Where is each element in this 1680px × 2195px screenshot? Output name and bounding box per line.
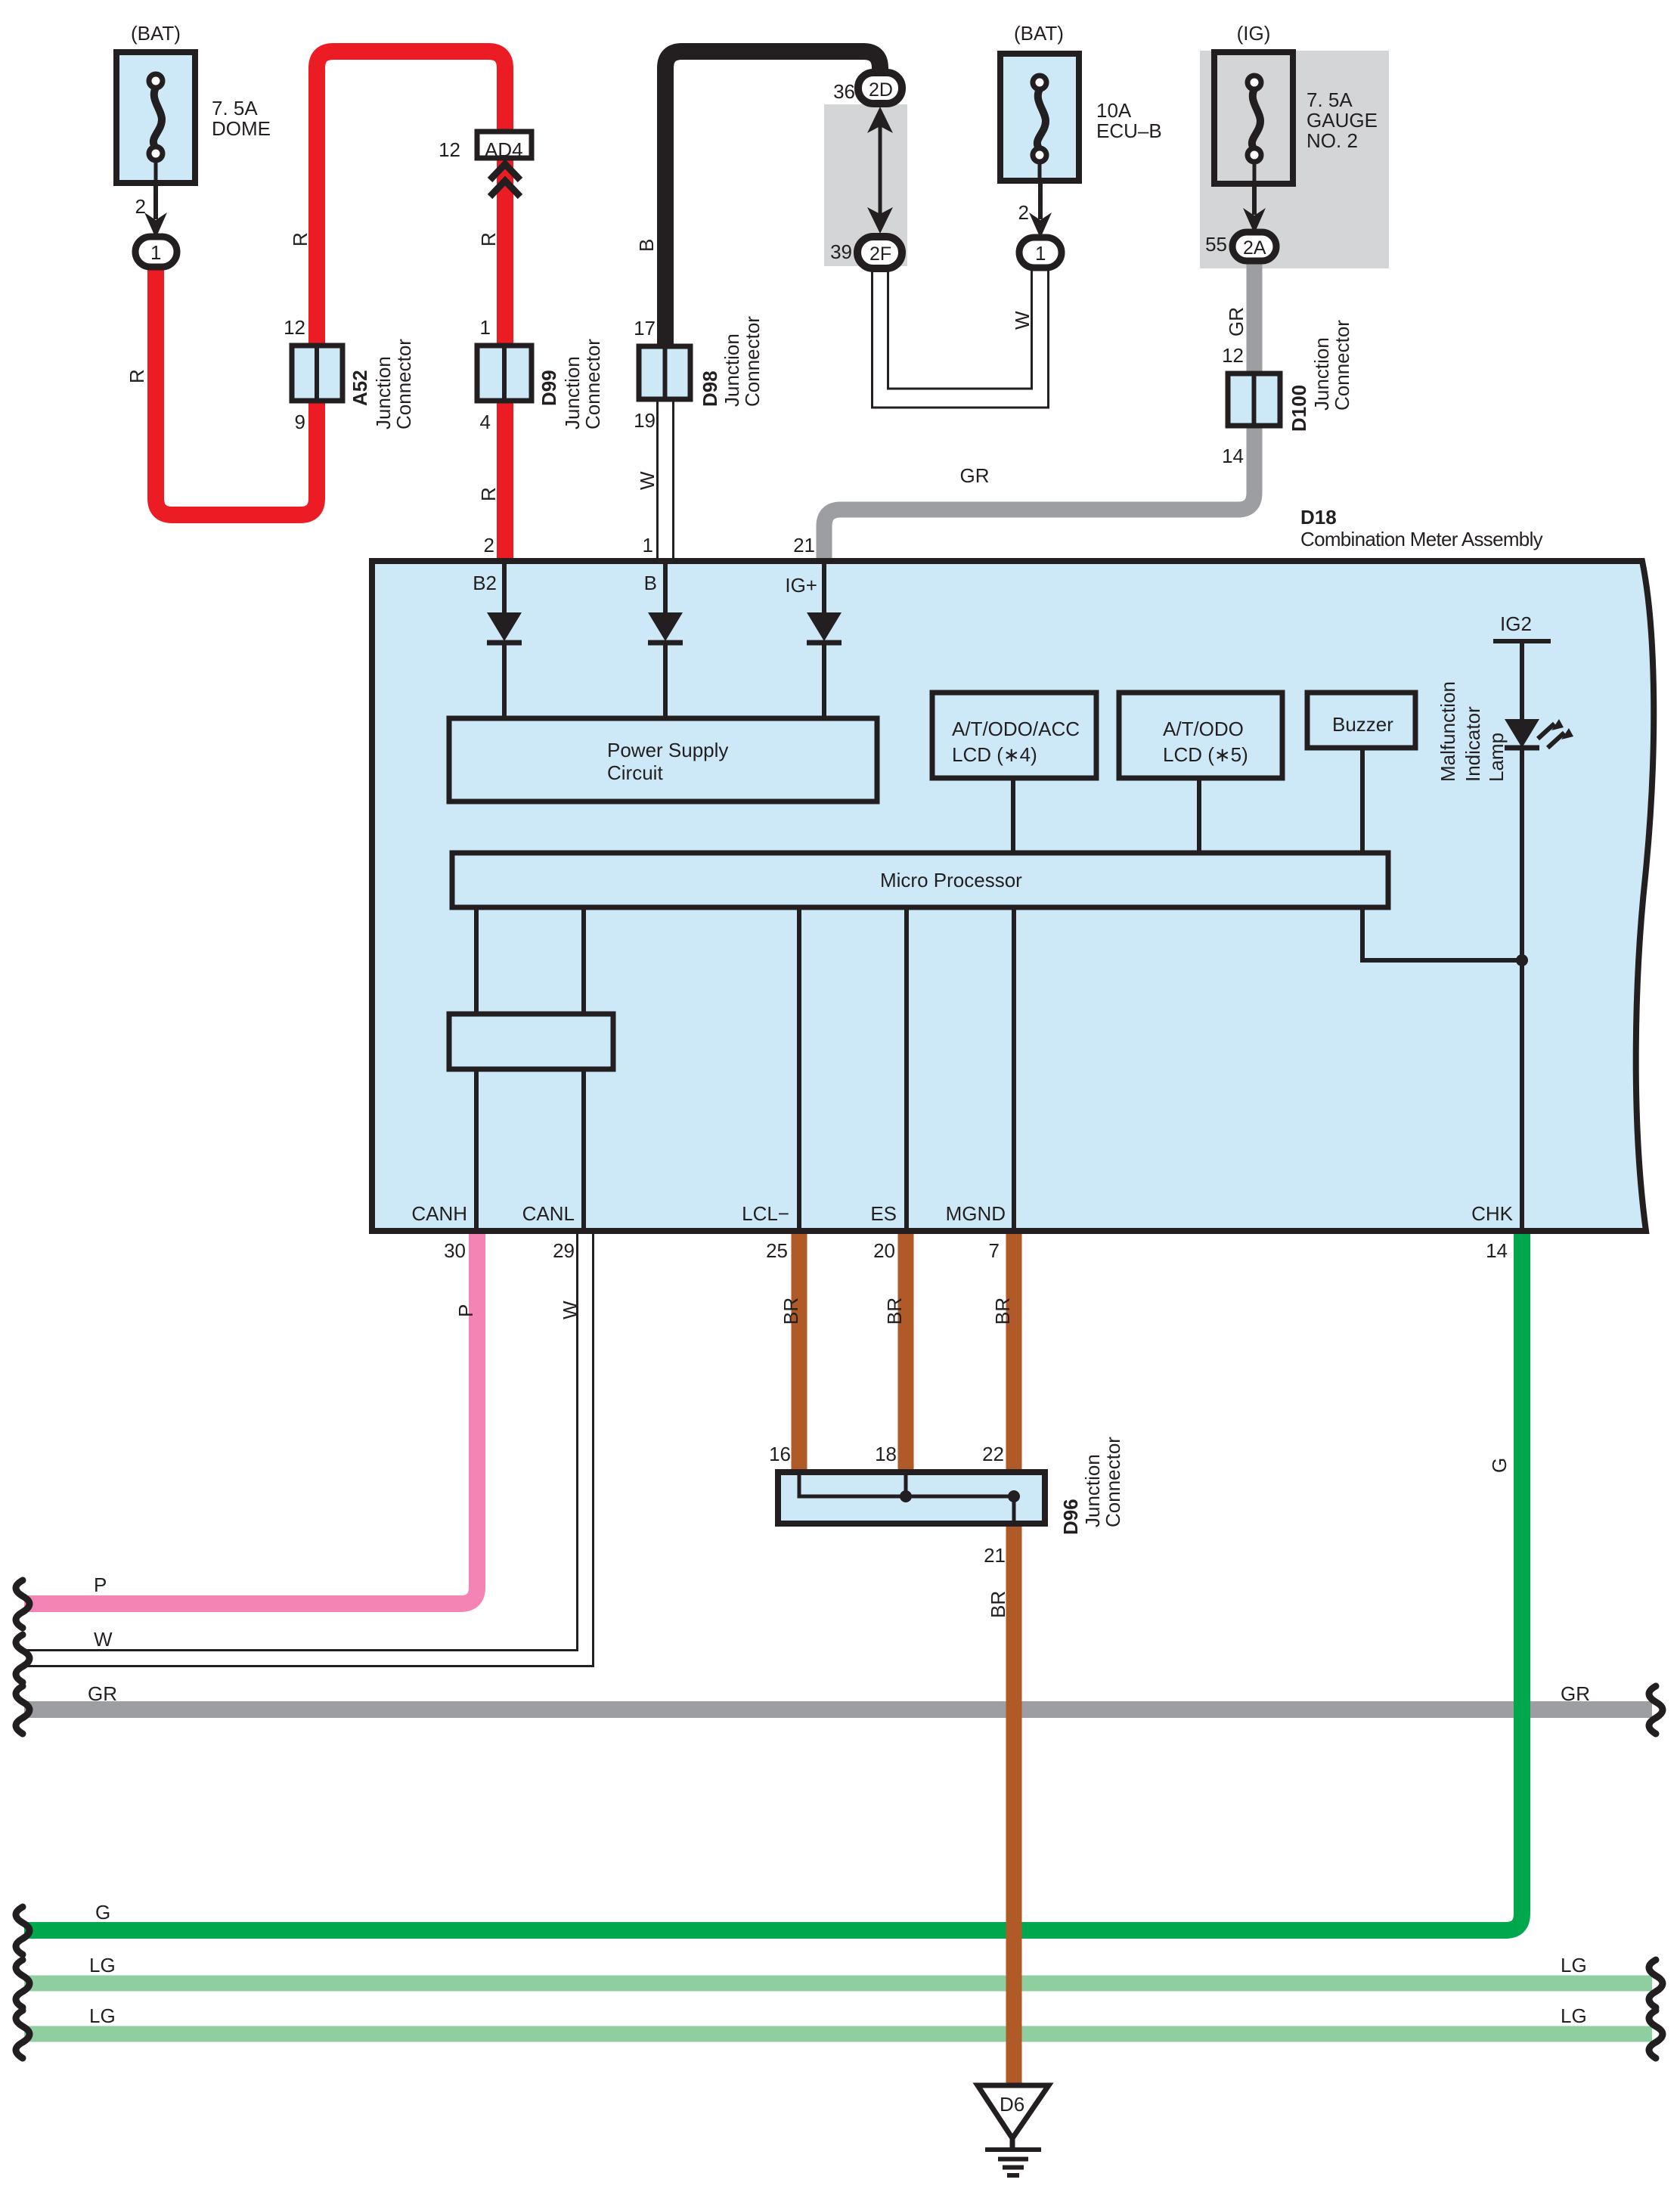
svg-text:GR: GR — [1225, 307, 1248, 336]
svg-text:39: 39 — [830, 240, 852, 263]
svg-text:2: 2 — [484, 534, 494, 557]
svg-text:IG+: IG+ — [785, 574, 817, 597]
label LG2 left — [89, 2004, 116, 2027]
svg-text:B: B — [644, 572, 657, 594]
svg-text:A/T/ODO/ACC: A/T/ODO/ACC — [952, 718, 1080, 740]
fuse 7.5A GAUGE NO.2 — [1214, 52, 1293, 187]
label R left — [126, 369, 148, 383]
connector AD4 — [477, 132, 532, 161]
svg-text:21: 21 — [793, 534, 815, 557]
wire BR (MGND pin 7 to D96 pin 22) — [1006, 1234, 1022, 1472]
label D100 junction connector — [1288, 320, 1353, 432]
svg-text:2: 2 — [1018, 201, 1029, 224]
svg-text:W: W — [1011, 311, 1034, 330]
wire BR (LCL- pin 25 to D96 pin 16) — [792, 1234, 807, 1472]
node junction dot on CHK line — [1516, 954, 1528, 966]
svg-text:D100: D100 — [1288, 385, 1310, 432]
label R at A52 — [289, 232, 312, 246]
label GR trunk left — [88, 1682, 117, 1705]
svg-text:2F: 2F — [869, 243, 891, 265]
label W wire bottom — [559, 1301, 581, 1319]
svg-text:Junction: Junction — [561, 356, 584, 429]
svg-text:LG: LG — [1561, 1954, 1587, 1976]
junction connector D99 — [477, 346, 532, 401]
diode at B2 — [487, 561, 522, 718]
break symbol P left — [16, 1580, 29, 1628]
pins D98 — [634, 317, 656, 432]
junction connector D100 — [1228, 374, 1280, 426]
label A52 junction connector — [349, 339, 415, 429]
label (BAT) ECU-B — [1014, 22, 1064, 45]
wire BR (ES pin 20 to D96 pin 18) — [898, 1234, 914, 1472]
svg-text:2: 2 — [135, 195, 146, 218]
label W trunk — [94, 1628, 113, 1651]
fuse 10A ECU-B — [1000, 54, 1079, 184]
wire arrow link 2D to 2F — [867, 107, 893, 234]
label G trunk — [95, 1901, 110, 1924]
svg-text:19: 19 — [634, 409, 656, 432]
svg-text:W: W — [559, 1301, 581, 1319]
label malfunction indicator lamp — [1437, 681, 1508, 782]
svg-text:16: 16 — [769, 1443, 791, 1465]
svg-text:30: 30 — [444, 1239, 466, 1262]
wire MP to CHK node — [1362, 907, 1522, 960]
diode at B — [648, 561, 683, 718]
svg-text:A/T/ODO: A/T/ODO — [1163, 718, 1244, 740]
ground D6 — [978, 2085, 1049, 2175]
svg-text:Junction: Junction — [721, 333, 743, 407]
svg-text:B2: B2 — [473, 572, 497, 594]
svg-text:36: 36 — [833, 80, 855, 103]
label LG1 right — [1561, 1954, 1587, 1976]
svg-text:14: 14 — [1486, 1239, 1508, 1262]
svg-text:CANH: CANH — [411, 1202, 467, 1225]
svg-text:D18: D18 — [1300, 506, 1337, 529]
svg-text:22: 22 — [982, 1443, 1004, 1465]
svg-text:MGND: MGND — [946, 1202, 1006, 1225]
svg-text:Micro Processor: Micro Processor — [880, 869, 1022, 891]
svg-text:CANL: CANL — [522, 1202, 575, 1225]
svg-text:LG: LG — [89, 1954, 116, 1976]
svg-text:LG: LG — [1561, 2004, 1587, 2027]
svg-text:12: 12 — [439, 138, 460, 161]
label BR MGND — [991, 1297, 1014, 1325]
label W below D98 — [636, 471, 659, 490]
pin 55 2A — [1205, 233, 1227, 256]
svg-text:P: P — [94, 1573, 107, 1596]
wire W outline (D98 pin 19 to meter B) — [658, 401, 674, 560]
label D99 junction connector — [538, 339, 604, 429]
label BR below D96 — [987, 1591, 1009, 1618]
svg-text:BR: BR — [991, 1297, 1014, 1325]
svg-text:Junction: Junction — [1310, 337, 1333, 411]
svg-text:GR: GR — [1561, 1682, 1590, 1705]
power supply circuit box — [449, 718, 877, 801]
gray system box 2D/2F — [824, 104, 907, 266]
svg-text:21: 21 — [984, 1544, 1006, 1567]
label B wire — [635, 239, 658, 252]
svg-text:18: 18 — [875, 1443, 897, 1465]
svg-text:7. 5A: 7. 5A — [1306, 88, 1353, 111]
label 7.5A DOME — [212, 97, 271, 140]
label BR LCL — [780, 1297, 802, 1325]
wire BR (D96 pin 21 to ground D6) — [1006, 1524, 1022, 2085]
svg-text:W: W — [636, 471, 659, 490]
LED malfunction indicator lamp — [1505, 719, 1573, 1228]
break symbol LG1 left — [16, 1960, 29, 2007]
svg-text:GR: GR — [960, 464, 990, 487]
wire LG trunk 2 — [24, 2026, 1652, 2042]
svg-text:Buzzer: Buzzer — [1332, 713, 1393, 736]
break symbol W left — [16, 1635, 29, 1682]
pin 2 DOME — [135, 195, 146, 218]
svg-text:Connector: Connector — [1331, 320, 1353, 411]
svg-text:Indicator: Indicator — [1461, 706, 1484, 782]
svg-text:7: 7 — [989, 1239, 1000, 1262]
meter top terminal names — [473, 572, 817, 597]
svg-text:55: 55 — [1205, 233, 1227, 256]
svg-text:1: 1 — [643, 534, 653, 557]
label GR trunk right — [1561, 1682, 1590, 1705]
label W at ECU loop — [1011, 311, 1034, 330]
pins A52 — [284, 316, 305, 433]
wire MGND internal — [1012, 907, 1016, 1228]
svg-text:BR: BR — [987, 1591, 1009, 1618]
svg-text:AD4: AD4 — [485, 138, 523, 161]
svg-text:(IG): (IG) — [1237, 22, 1271, 45]
svg-text:2A: 2A — [1243, 237, 1266, 259]
meter bottom terminal names — [411, 1202, 1513, 1225]
harness chevron below AD4 — [490, 164, 520, 197]
pin 39 2F — [830, 240, 852, 263]
wire R (DOME fuse to meter B2 via A52, AD4, D99) — [156, 51, 505, 558]
svg-text:Circuit: Circuit — [607, 761, 663, 784]
wire GR (2A via D100 to meter IG+) — [824, 260, 1254, 558]
wire W outline U-shape (2F to ECU-B pin 1) — [873, 268, 1049, 408]
break symbol G left — [16, 1907, 29, 1955]
CAN transceiver box — [449, 907, 613, 1228]
svg-text:D99: D99 — [538, 370, 560, 406]
diode at IG+ — [807, 561, 842, 718]
IG2 supply bar — [1493, 612, 1551, 721]
connector oval 2A — [1232, 232, 1276, 261]
label D98 junction connector — [699, 316, 764, 407]
pins D100 — [1222, 344, 1244, 467]
wire thin black (DOME fuse bottom to connector 1) — [144, 186, 167, 238]
svg-text:17: 17 — [634, 317, 656, 339]
meter top pin labels — [484, 534, 815, 557]
pin 12 AD4 — [439, 138, 460, 161]
wire LCL- internal — [797, 907, 801, 1228]
svg-text:Connector: Connector — [1102, 1437, 1124, 1527]
svg-text:LG: LG — [89, 2004, 116, 2027]
svg-text:2D: 2D — [869, 79, 893, 101]
junction connector D96 — [778, 1472, 1045, 1524]
svg-text:G: G — [95, 1901, 110, 1924]
svg-text:R: R — [289, 232, 312, 246]
wire thin black (GAUGE fuse bottom to 2A) — [1243, 187, 1266, 234]
svg-text:20: 20 — [873, 1239, 895, 1262]
break symbol GR left — [16, 1686, 29, 1734]
break symbol GR right — [1649, 1686, 1663, 1734]
svg-text:Connector: Connector — [741, 316, 764, 407]
label GR rotated — [1225, 307, 1248, 336]
svg-text:B: B — [635, 239, 658, 252]
fuse 7.5A DOME — [116, 52, 195, 186]
svg-text:(BAT): (BAT) — [1014, 22, 1064, 45]
connector oval 2F — [857, 237, 902, 268]
break symbol LG1 right — [1649, 1960, 1663, 2007]
wire GR trunk — [24, 1701, 1652, 1718]
junction connector A52 — [292, 346, 343, 401]
svg-text:Junction: Junction — [372, 356, 395, 429]
A/T/ODO LCD box — [1119, 693, 1282, 853]
wire B (D98 to 2D) — [665, 51, 880, 345]
junction connector D98 — [639, 346, 690, 399]
svg-text:14: 14 — [1222, 445, 1244, 467]
svg-text:4: 4 — [480, 411, 491, 433]
svg-text:R: R — [477, 487, 500, 501]
pins D99 — [480, 316, 491, 433]
wire W outline (CANL pin 29) — [26, 1234, 594, 1666]
wire G (CHK pin 14) — [24, 1234, 1522, 1930]
svg-text:Combination Meter Assembly: Combination Meter Assembly — [1300, 528, 1543, 550]
label (IG) GAUGE — [1237, 22, 1271, 45]
wire P (CANH pin 30) — [24, 1234, 477, 1604]
svg-text:D98: D98 — [699, 370, 721, 407]
gray system box GAUGE NO.2 — [1200, 51, 1389, 268]
svg-text:DOME: DOME — [212, 117, 271, 140]
pin 2 ECU-B — [1018, 201, 1029, 224]
svg-text:R: R — [126, 369, 148, 383]
pin 36 2D — [833, 80, 855, 103]
svg-text:G: G — [1488, 1458, 1511, 1473]
svg-text:7. 5A: 7. 5A — [212, 97, 258, 119]
buzzer box — [1307, 693, 1415, 853]
label GR horizontal — [960, 464, 990, 487]
svg-text:29: 29 — [553, 1239, 575, 1262]
label 10A ECU-B — [1096, 99, 1162, 142]
break symbol LG2 left — [16, 2011, 29, 2058]
svg-text:12: 12 — [284, 316, 305, 339]
label R at D99 bottom — [477, 487, 500, 501]
label (BAT) DOME — [131, 22, 181, 45]
label R at D99 top — [477, 232, 500, 246]
label G wire — [1488, 1458, 1511, 1473]
svg-text:Connector: Connector — [581, 339, 604, 429]
combination meter assembly D18 box — [372, 561, 1654, 1231]
svg-text:Lamp: Lamp — [1485, 733, 1508, 782]
svg-text:25: 25 — [766, 1239, 788, 1262]
label 7.5A GAUGE NO.2 — [1306, 88, 1378, 152]
svg-text:(BAT): (BAT) — [131, 22, 181, 45]
svg-text:W: W — [94, 1628, 113, 1651]
svg-text:BR: BR — [780, 1297, 802, 1325]
svg-text:GR: GR — [88, 1682, 117, 1705]
svg-text:10A: 10A — [1096, 99, 1132, 122]
label LG2 right — [1561, 2004, 1587, 2027]
svg-text:12: 12 — [1222, 344, 1244, 367]
A/T/ODO/ACC LCD box — [932, 693, 1096, 853]
break symbol LG2 right — [1649, 2011, 1663, 2058]
svg-text:1: 1 — [480, 316, 491, 339]
svg-text:LCL−: LCL− — [742, 1202, 789, 1225]
connector oval 1 (ECU-B) — [1019, 237, 1062, 268]
wire LG trunk 1 — [24, 1976, 1652, 1992]
connector oval 1 (DOME) — [135, 237, 177, 267]
svg-text:9: 9 — [295, 411, 305, 433]
svg-text:IG2: IG2 — [1500, 612, 1532, 635]
svg-text:LCD (∗4): LCD (∗4) — [952, 743, 1037, 766]
label LG1 left — [89, 1954, 116, 1976]
connector oval 2D — [858, 73, 902, 104]
svg-text:ES: ES — [870, 1202, 897, 1225]
svg-text:CHK: CHK — [1471, 1202, 1514, 1225]
pins D96 — [769, 1443, 1006, 1567]
label D18 combination meter assembly — [1300, 506, 1543, 550]
wire thin black (ECU-B fuse bottom to connector 1) — [1029, 184, 1052, 238]
svg-text:1: 1 — [150, 241, 161, 264]
svg-text:ECU–B: ECU–B — [1096, 119, 1162, 142]
svg-text:Malfunction: Malfunction — [1437, 681, 1459, 782]
svg-text:A52: A52 — [349, 370, 371, 406]
label P wire — [454, 1304, 477, 1317]
label P trunk — [94, 1573, 107, 1596]
wire ES internal — [904, 907, 909, 1228]
svg-text:BR: BR — [883, 1297, 906, 1325]
svg-text:Power Supply: Power Supply — [607, 739, 728, 761]
svg-text:GAUGE: GAUGE — [1306, 109, 1378, 132]
svg-text:R: R — [477, 232, 500, 246]
svg-text:P: P — [454, 1304, 477, 1317]
svg-text:NO. 2: NO. 2 — [1306, 129, 1358, 152]
meter bottom pin numbers — [444, 1239, 1508, 1262]
label BR ES — [883, 1297, 906, 1325]
micro processor box — [452, 853, 1388, 907]
label D96 junction connector — [1059, 1437, 1124, 1535]
svg-text:Connector: Connector — [392, 339, 415, 429]
svg-text:Junction: Junction — [1081, 1454, 1104, 1527]
svg-text:LCD (∗5): LCD (∗5) — [1163, 743, 1248, 766]
svg-text:1: 1 — [1035, 242, 1046, 265]
svg-text:D96: D96 — [1059, 1499, 1082, 1535]
svg-text:D6: D6 — [1000, 2093, 1024, 2116]
